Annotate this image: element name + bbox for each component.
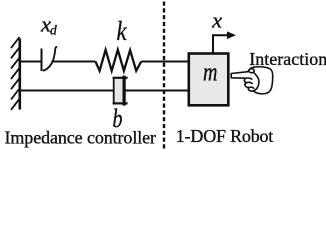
dashed separator line — [163, 2, 165, 151]
wall — [11, 37, 20, 110]
damper piston plate — [122, 76, 125, 106]
x arrow — [213, 35, 228, 53]
wire xd-to-spring — [52, 61, 96, 63]
svg-text:k: k — [117, 16, 128, 46]
wire spring-to-mass — [141, 61, 188, 63]
svg-text:d: d — [50, 23, 57, 38]
wire top-left segment — [21, 61, 42, 63]
svg-text:m: m — [203, 58, 218, 87]
hand (interaction manicule) — [231, 67, 273, 94]
node xd curve — [43, 47, 57, 71]
spring k — [96, 50, 142, 71]
node xd tick — [41, 49, 43, 72]
mass m block — [189, 54, 229, 106]
wire wall-to-damper — [21, 90, 113, 92]
svg-text:x: x — [211, 8, 222, 33]
damper b cylinder — [113, 78, 126, 103]
svg-text:Interaction: Interaction — [249, 49, 326, 69]
svg-text:Impedance controller: Impedance controller — [5, 128, 157, 148]
wire damper-to-mass — [126, 90, 189, 92]
svg-text:1-DOF Robot: 1-DOF Robot — [176, 126, 274, 146]
